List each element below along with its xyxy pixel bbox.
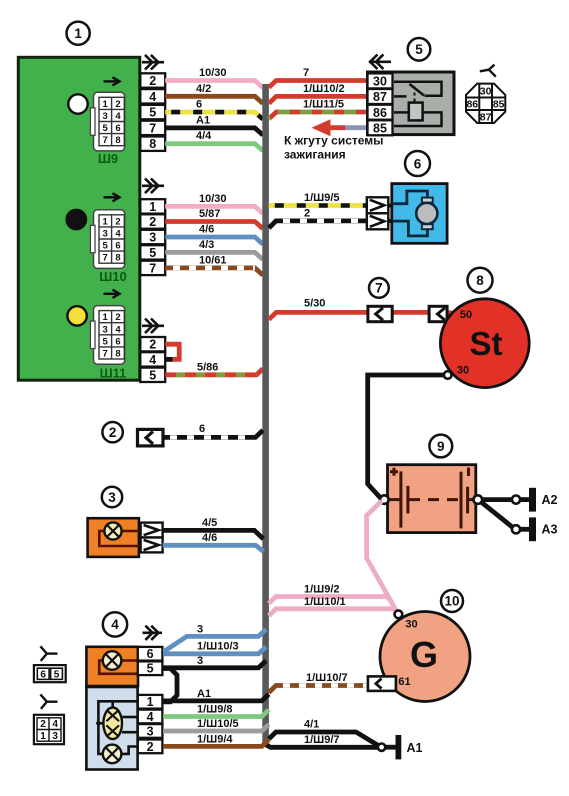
svg-text:1: 1: [103, 216, 109, 227]
svg-text:86: 86: [466, 99, 478, 111]
wire battery plus to generator 30 (pink): [367, 501, 398, 614]
washer pump 6: connector chevrons: [367, 197, 392, 229]
node black key circle (Ш10 group): [67, 210, 86, 229]
socket box 6|5: [34, 665, 66, 682]
wire 5/30 (to starter, red): [269, 298, 453, 320]
main harness trunk: [262, 84, 269, 744]
generator 10 (G): [380, 612, 470, 702]
svg-text:5/87: 5/87: [199, 208, 220, 220]
svg-text:A2: A2: [542, 493, 558, 507]
lamp unit 3 (orange box): [88, 518, 141, 557]
svg-text:1/Ш9/8: 1/Ш9/8: [197, 704, 233, 716]
antenna symbol upper left of comp4: [40, 646, 57, 661]
svg-text:1/Ш10/5: 1/Ш10/5: [197, 718, 239, 730]
svg-text:30: 30: [457, 365, 469, 377]
svg-text:4: 4: [115, 324, 121, 335]
svg-text:5: 5: [149, 106, 156, 120]
arrow above connector Ш11: [104, 290, 120, 298]
label circle 10: [441, 590, 463, 612]
svg-text:1/Ш10/1: 1/Ш10/1: [304, 596, 346, 608]
label circle 8: [468, 268, 493, 293]
svg-text:2: 2: [40, 719, 46, 730]
wire starter 30 to battery + (black): [368, 375, 448, 499]
svg-text:1/Ш10/2: 1/Ш10/2: [303, 83, 345, 95]
label circle 5: [408, 38, 431, 61]
svg-text:4/3: 4/3: [199, 239, 214, 251]
svg-text:3: 3: [147, 724, 154, 738]
wire 4/5 (comp3, black): [163, 517, 264, 539]
svg-text:6: 6: [40, 670, 46, 681]
connector icon Ш11: [90, 306, 126, 381]
svg-text:1: 1: [74, 26, 82, 41]
svg-text:4: 4: [147, 710, 154, 724]
socket box 2 4 / 1 3: [34, 715, 64, 744]
ground terminal A1: [378, 735, 423, 759]
connector 7 (plug symbol): [368, 306, 392, 321]
svg-text:3: 3: [103, 229, 108, 240]
svg-text:4: 4: [111, 617, 119, 632]
svg-text:85: 85: [493, 99, 505, 111]
connector icon Ш10: [90, 210, 126, 284]
svg-text:4/4: 4/4: [196, 130, 212, 142]
ground terminal A2: [512, 488, 558, 512]
svg-text:1/Ш10/7: 1/Ш10/7: [306, 672, 348, 684]
connector 2 (plug symbol): [138, 429, 164, 446]
label circle 2: [102, 422, 122, 442]
svg-text:8: 8: [149, 137, 156, 151]
svg-text:4/6: 4/6: [199, 224, 214, 236]
wire 10/61 (Ш10-7, brown-white): [165, 254, 263, 275]
svg-text:5: 5: [54, 670, 60, 681]
svg-text:5: 5: [147, 662, 154, 676]
terminal circle generator 30: [395, 610, 403, 618]
svg-text:5: 5: [103, 241, 109, 252]
svg-text:2: 2: [115, 99, 120, 110]
svg-text:1: 1: [40, 731, 46, 742]
svg-text:1: 1: [147, 695, 154, 709]
svg-text:G: G: [410, 634, 438, 675]
svg-text:3: 3: [197, 623, 203, 635]
svg-text:6: 6: [115, 123, 120, 134]
svg-text:4: 4: [115, 111, 121, 122]
svg-text:1/Ш9/4: 1/Ш9/4: [197, 734, 233, 746]
svg-text:2: 2: [109, 425, 117, 440]
svg-text:2: 2: [147, 740, 154, 754]
svg-text:50: 50: [460, 309, 472, 321]
relay 5: harness symbol (left-pointing): [369, 55, 391, 70]
wire 6 (Ш9-5, yellow-black): [165, 99, 263, 120]
svg-text:30: 30: [480, 86, 492, 98]
pin boxes Ш10: [140, 199, 165, 275]
text: to ignition system harness: [284, 134, 383, 162]
svg-text:7: 7: [375, 281, 383, 296]
svg-text:7: 7: [103, 349, 108, 360]
svg-text:4/2: 4/2: [196, 83, 211, 95]
svg-text:1/Ш10/3: 1/Ш10/3: [197, 641, 239, 653]
wire 4/6 (comp3, blue): [163, 532, 264, 552]
svg-text:6: 6: [196, 99, 202, 111]
connector chevrons comp3: [141, 523, 163, 553]
svg-text:2: 2: [149, 74, 156, 88]
svg-text:2: 2: [115, 312, 120, 323]
svg-text:A1: A1: [197, 688, 211, 700]
svg-text:4: 4: [52, 719, 58, 730]
svg-text:4/5: 4/5: [202, 517, 217, 529]
label circle 3: [102, 487, 122, 507]
wire 7 (to relay 30, red): [269, 67, 368, 88]
relay pinout Y symbol: [480, 65, 496, 77]
svg-text:6: 6: [147, 647, 154, 661]
svg-text:6: 6: [199, 423, 205, 435]
wire 1/Ш10/5 (comp4 pin3, gray): [163, 718, 269, 731]
jumper pin5-pin1 comp4 (black): [163, 669, 177, 702]
svg-text:1/Ш9/2: 1/Ш9/2: [304, 584, 340, 596]
svg-text:5: 5: [415, 42, 423, 57]
svg-text:Ш10: Ш10: [99, 269, 127, 284]
lamp unit 4: orange top box: [86, 647, 138, 686]
svg-text:A1: A1: [407, 741, 423, 755]
svg-text:7: 7: [303, 67, 309, 79]
wire A1 (comp4 pin1, black): [163, 688, 269, 701]
harness symbol above Ш11 pins: [142, 319, 164, 334]
wire 3 (comp4 pin5, black): [163, 655, 266, 668]
svg-text:2: 2: [149, 215, 156, 229]
label circle 1: [67, 22, 90, 45]
svg-text:A3: A3: [542, 523, 558, 537]
wire A1 (Ш9-7, black): [165, 114, 263, 135]
svg-text:5/86: 5/86: [197, 361, 218, 373]
node white key circle (Ш9 group): [68, 94, 87, 113]
svg-text:6: 6: [115, 241, 120, 252]
relay 5 body: [368, 72, 455, 136]
svg-text:5: 5: [103, 123, 109, 134]
wire 2 (to washer pump, black-white): [269, 207, 367, 228]
svg-text:7: 7: [149, 261, 156, 275]
jumper wire Ш11 pin2 to pin4 (red): [165, 344, 179, 359]
arrow above connector Ш10: [104, 193, 120, 201]
svg-text:6: 6: [115, 336, 120, 347]
battery 9: [388, 465, 476, 533]
wire 5/87 (Ш10-2, red): [165, 208, 263, 229]
svg-text:5/30: 5/30: [304, 298, 325, 310]
connector at generator 61: [368, 676, 396, 691]
svg-text:Ш11: Ш11: [100, 365, 127, 380]
wire 4/4 (Ш9-8, green): [165, 130, 263, 151]
svg-text:3: 3: [103, 111, 108, 122]
relay socket pinout octagon: [466, 84, 505, 124]
svg-text:Ш9: Ш9: [98, 151, 118, 166]
pin boxes Ш11: [140, 337, 165, 382]
svg-text:4/1: 4/1: [304, 719, 319, 731]
label circle 6: [405, 151, 430, 176]
svg-text:61: 61: [398, 676, 410, 688]
svg-text:7: 7: [149, 121, 156, 135]
svg-text:8: 8: [476, 273, 484, 288]
wire 1/Ш9/5 (to washer pump, yellow-black): [269, 192, 367, 206]
svg-text:87: 87: [480, 111, 492, 123]
battery terminal circles: [380, 495, 482, 504]
svg-text:5: 5: [103, 336, 109, 347]
svg-text:10/30: 10/30: [199, 193, 227, 205]
wire 4/6 (Ш10-3, blue): [165, 224, 263, 245]
svg-text:St: St: [470, 325, 503, 362]
svg-text:1/Ш11/5: 1/Ш11/5: [303, 99, 344, 111]
svg-text:2: 2: [304, 207, 310, 219]
svg-text:10/30: 10/30: [199, 67, 227, 79]
svg-text:9: 9: [437, 439, 445, 454]
wire 3 (comp4 pin6, blue, upper): [164, 623, 267, 652]
battery minus wires to A2 A3: [481, 500, 530, 530]
wire 1/Ш9/8 (comp4 pin4, green): [163, 704, 269, 717]
svg-text:30: 30: [405, 619, 417, 631]
wire 10/30 (Ш9-2, pink): [165, 67, 263, 88]
svg-text:1/Ш9/7: 1/Ш9/7: [304, 734, 340, 746]
svg-text:4: 4: [115, 229, 121, 240]
wire 1/Ш10/3 (comp4 pin6, blue): [163, 641, 266, 654]
wire 5/86 (Ш11-5, red-green): [165, 361, 263, 374]
svg-text:1: 1: [103, 99, 109, 110]
washer pump motor 6 (blue box): [392, 184, 447, 244]
node yellow key circle (Ш11 group): [67, 306, 86, 325]
svg-text:1: 1: [149, 200, 156, 214]
wire 1/Ш9/4 (comp4 pin2, brown): [163, 734, 269, 747]
svg-text:3: 3: [52, 731, 58, 742]
relay internal contacts: [394, 82, 442, 126]
svg-text:4: 4: [149, 90, 156, 104]
svg-text:30: 30: [373, 75, 387, 89]
svg-text:3: 3: [108, 490, 116, 505]
wire 1/Ш11/5 (to relay 86, green-red): [269, 99, 368, 120]
lamp unit 4: pale blue bottom box: [86, 687, 137, 770]
wire 10/30 (Ш10-1, pink): [165, 193, 263, 214]
svg-text:10/61: 10/61: [199, 254, 227, 266]
svg-text:8: 8: [115, 253, 120, 264]
svg-text:86: 86: [373, 106, 387, 120]
svg-text:6: 6: [414, 156, 422, 171]
wire to relay 85 (red + slate) with arrow to ignition harness: [312, 119, 368, 136]
svg-text:8: 8: [115, 349, 120, 360]
harness symbol above Ш9 pins: [142, 55, 164, 70]
svg-text:3: 3: [197, 655, 203, 667]
arrow above connector Ш9: [104, 77, 120, 85]
wire 1/Ш9/2 (pink): [269, 584, 391, 604]
antenna symbol lower left of comp4: [40, 694, 57, 709]
starter 8 (St): [440, 299, 529, 388]
svg-text:1/Ш9/5: 1/Ш9/5: [304, 192, 340, 204]
connector icon Ш9: [90, 92, 124, 166]
svg-text:5: 5: [149, 246, 156, 260]
svg-text:87: 87: [373, 90, 387, 104]
svg-text:4: 4: [149, 353, 156, 367]
svg-text:10: 10: [444, 593, 459, 608]
svg-text:1: 1: [103, 312, 109, 323]
wire 4/1 (black): [269, 719, 379, 746]
wire 6 (comp2, black-white): [163, 423, 263, 437]
svg-text:8: 8: [115, 135, 120, 146]
pin boxes comp4: [138, 647, 163, 754]
wire 4/3 (Ш10-5, gray): [165, 239, 263, 260]
svg-text:85: 85: [373, 122, 387, 136]
harness symbol comp4: [143, 626, 163, 640]
label circle 9: [429, 435, 452, 458]
svg-text:7: 7: [103, 253, 108, 264]
svg-text:A1: A1: [196, 114, 210, 126]
svg-text:2: 2: [149, 338, 156, 352]
svg-text:3: 3: [149, 231, 156, 245]
harness symbol above Ш10 pins: [142, 179, 164, 194]
label circle 7: [369, 278, 389, 298]
wire 1/Ш10/1 (pink): [269, 596, 395, 616]
svg-text:7: 7: [103, 135, 108, 146]
svg-text:2: 2: [115, 216, 120, 227]
wire 1/Ш9/7 (black): [266, 734, 378, 747]
pin boxes Ш9: [140, 73, 165, 151]
svg-text:3: 3: [103, 324, 108, 335]
wire 1/Ш10/2 (to relay 87, red): [269, 83, 368, 104]
svg-text:4/6: 4/6: [202, 532, 217, 544]
wire 1/Ш10/7 (brown-white, to G 61): [269, 672, 368, 693]
ground terminal A3: [512, 517, 558, 541]
mounting block unit 1 (green body): [18, 57, 140, 380]
wire 4/2 (Ш9-4, brown): [165, 83, 263, 104]
svg-text:5: 5: [149, 368, 156, 382]
connector at starter 50: [429, 306, 447, 321]
label circle 4: [103, 612, 127, 636]
terminal circle starter 30: [444, 371, 452, 379]
svg-text:зажигания: зажигания: [284, 148, 346, 162]
